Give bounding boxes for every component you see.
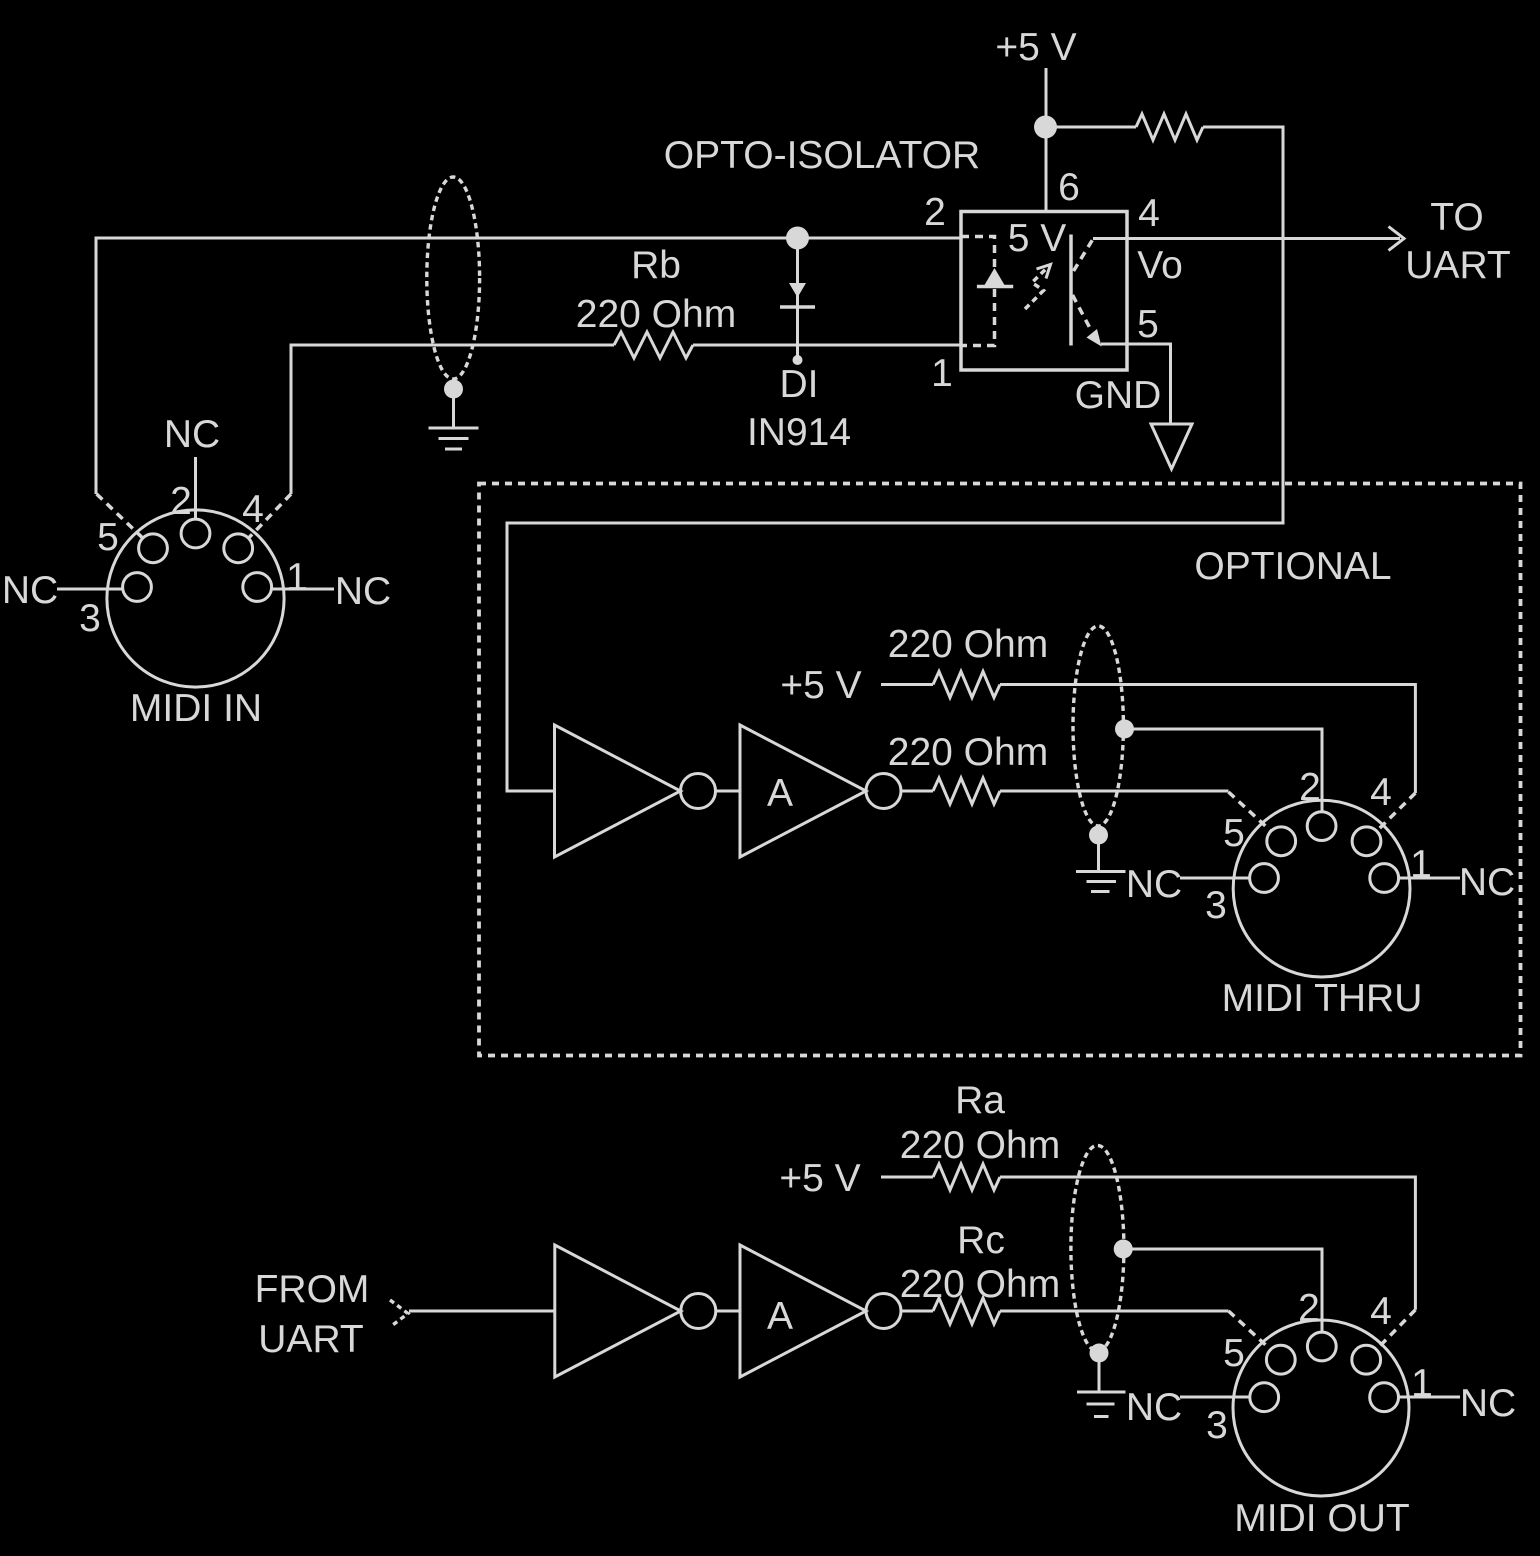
THRU pin 2	[1307, 812, 1336, 841]
svg-text:4: 4	[1370, 1290, 1392, 1333]
wire resistor to feedback line down into OPTIONAL box	[507, 127, 1283, 791]
svg-text:NC: NC	[164, 413, 220, 456]
THRU pin 5	[1267, 827, 1296, 856]
svg-text:TO: TO	[1430, 196, 1483, 239]
earth ground (shield)	[429, 428, 479, 449]
MIDI IN pin 4	[224, 534, 253, 563]
junction dot diode anode	[786, 227, 809, 250]
svg-text:UART: UART	[1405, 244, 1510, 287]
svg-text:DI: DI	[780, 363, 819, 406]
svg-text:Ra: Ra	[955, 1079, 1005, 1122]
OUT pin 1	[1370, 1383, 1399, 1412]
cable shield ellipse (THRU)	[1073, 626, 1123, 826]
dashed lead OUT pin 5	[1229, 1311, 1271, 1350]
inverter 1 triangle (OUT)	[555, 1245, 681, 1377]
opto internal: phototransistor base bar	[1069, 235, 1073, 346]
svg-text:MIDI THRU: MIDI THRU	[1222, 977, 1423, 1020]
opto internal: collector dashed	[1074, 239, 1094, 271]
ground arrow (open triangle)	[1151, 424, 1192, 469]
THRU pin 1	[1370, 864, 1399, 893]
opto internal: LED dashed loop top	[961, 237, 995, 269]
opto internal: LED dashed loop bottom	[961, 289, 995, 346]
wire bubble1 to inverter 2	[716, 790, 741, 793]
svg-text:NC: NC	[335, 570, 391, 613]
OUT pin 4	[1352, 1345, 1381, 1374]
inverter 2 triangle	[740, 725, 866, 857]
svg-text:A: A	[767, 1295, 793, 1338]
wire NC to pin 3	[57, 588, 123, 591]
wire Ra to pin 4 riser (OUT)	[1000, 1177, 1415, 1310]
svg-text:220 Ohm: 220 Ohm	[576, 293, 736, 336]
wire resistor to pin5 lead	[1000, 790, 1229, 793]
svg-text:220 Ohm: 220 Ohm	[900, 1263, 1060, 1306]
svg-text:220 Ohm: 220 Ohm	[900, 1124, 1060, 1167]
svg-text:1: 1	[1411, 1362, 1433, 1405]
svg-text:+5 V: +5 V	[995, 26, 1076, 69]
earth ground (OUT shield)	[1077, 1392, 1126, 1417]
dashed lead OUT pin 4	[1376, 1310, 1415, 1350]
wire Rc to pin5 lead	[1000, 1310, 1229, 1313]
dashed lead pin 4	[248, 494, 291, 538]
svg-text:4: 4	[1370, 771, 1392, 814]
dashed chevron (from uart)	[390, 1300, 408, 1327]
wire Rb to opto pin 1	[693, 344, 961, 347]
opto internal: light arrow dashed zigzag	[1025, 265, 1051, 310]
shield ground stem (OUT)	[1098, 1353, 1101, 1391]
svg-text:NC: NC	[1126, 863, 1182, 906]
svg-text:2: 2	[1298, 1287, 1320, 1330]
MIDI IN pin 2	[181, 519, 210, 548]
earth ground (THRU shield)	[1076, 872, 1126, 892]
resistor 220 Ohm (+5V, THRU)	[933, 672, 1000, 698]
wire NC to pin 2	[194, 457, 197, 519]
wire shield dot to pin 2 (OUT)	[1123, 1249, 1322, 1332]
wire node to pull-up resistor	[1046, 126, 1136, 129]
svg-text:1: 1	[931, 352, 953, 395]
opto internal: LED triangle	[985, 268, 1005, 285]
svg-text:A: A	[767, 772, 793, 815]
inverter 1 bubble	[681, 774, 716, 809]
opto-isolator U1 body	[961, 212, 1127, 371]
svg-text:+5 V: +5 V	[780, 664, 861, 707]
inverter 1 bubble (OUT)	[681, 1294, 716, 1329]
svg-text:1: 1	[286, 556, 308, 599]
svg-text:2: 2	[924, 191, 946, 234]
resistor Ra	[933, 1164, 1000, 1190]
resistor 220 Ohm (signal, THRU)	[933, 778, 1000, 804]
svg-text:NC: NC	[2, 569, 58, 612]
cable shield ellipse (MIDI IN)	[427, 177, 480, 379]
shield ground stem	[452, 389, 455, 428]
MIDI IN pin 3	[123, 573, 152, 602]
svg-text:NC: NC	[1126, 1386, 1182, 1429]
wire bottom net: MIDI IN pin4 riser to Rb	[291, 345, 614, 494]
svg-text:3: 3	[79, 597, 101, 640]
shield junction dot (ground, OUT)	[1090, 1344, 1109, 1363]
wire NC to OUT pin 3	[1180, 1396, 1250, 1399]
svg-text:5: 5	[97, 516, 119, 559]
THRU pin 3	[1250, 864, 1279, 893]
OPTIONAL dashed border	[479, 484, 1521, 1056]
resistor pull-up (unlabeled)	[1136, 114, 1203, 140]
svg-text:NC: NC	[1460, 1382, 1516, 1425]
wire pin 4 to UART	[1093, 237, 1400, 240]
pin 6 wire (+5V node to opto)	[1045, 127, 1048, 211]
inverter 2 triangle (OUT)	[740, 1245, 866, 1377]
svg-text:IN914: IN914	[747, 411, 851, 454]
MIDI IN pin 5	[139, 534, 168, 563]
resistor Rc	[933, 1298, 1000, 1324]
wire shield dot to pin 2	[1125, 729, 1323, 812]
inverter 1 triangle	[555, 725, 681, 857]
svg-text:Vo: Vo	[1137, 244, 1183, 287]
svg-text:3: 3	[1205, 884, 1227, 927]
diode DI (vertical, arrow down, cathode bar)	[780, 238, 815, 365]
svg-text:OPTO-ISOLATOR: OPTO-ISOLATOR	[664, 134, 980, 177]
svg-text:MIDI IN: MIDI IN	[130, 687, 262, 730]
svg-text:UART: UART	[258, 1318, 363, 1361]
junction dot +5V node	[1034, 116, 1057, 139]
svg-text:2: 2	[1299, 766, 1321, 809]
wire pin 1 to NC	[272, 588, 334, 591]
MIDI IN connector body	[107, 510, 284, 687]
opto internal: emitter arrowhead	[1087, 329, 1102, 347]
svg-text:MIDI OUT: MIDI OUT	[1234, 1497, 1409, 1540]
cable shield ellipse (OUT)	[1071, 1145, 1124, 1351]
svg-text:220 Ohm: 220 Ohm	[888, 731, 1048, 774]
wire +5V down to node	[1045, 68, 1048, 127]
svg-text:FROM: FROM	[255, 1268, 370, 1311]
wire +5V to resistor Ra	[881, 1176, 933, 1179]
OUT pin 5	[1266, 1345, 1295, 1374]
svg-text:4: 4	[1138, 192, 1160, 235]
wire +5V to resistor	[881, 683, 933, 686]
dashed lead THRU pin 4	[1376, 793, 1415, 831]
dashed lead THRU pin 5	[1229, 792, 1272, 831]
wire top net: MIDI IN pin5 riser to opto pin 2	[96, 238, 961, 494]
MIDI IN pin 1	[243, 573, 272, 602]
opto internal: emitter dashed	[1073, 295, 1093, 332]
shield junction dot (pin 2 net)	[1115, 720, 1134, 739]
opto internal: light arrowhead	[1037, 265, 1051, 279]
dashed lead pin 5	[97, 494, 143, 538]
svg-text:5: 5	[1137, 303, 1159, 346]
shield junction dot	[444, 380, 463, 399]
resistor Rb	[614, 332, 693, 358]
inverter 2 bubble	[866, 774, 901, 809]
arrowhead TO UART	[1389, 227, 1405, 251]
svg-text:Rc: Rc	[957, 1219, 1005, 1262]
svg-text:Rb: Rb	[631, 244, 681, 287]
svg-text:+5 V: +5 V	[779, 1157, 860, 1200]
svg-text:GND: GND	[1075, 374, 1162, 417]
shield junction dot (ground)	[1089, 826, 1108, 845]
wire resistor to pin 4 riser	[1000, 685, 1415, 794]
opto internal: LED cathode bar	[977, 285, 1013, 289]
OUT pin 2	[1307, 1332, 1336, 1361]
wire bubble2 to resistor	[901, 790, 933, 793]
wire THRU pin 1 to NC	[1399, 877, 1460, 880]
MIDI THRU connector body	[1233, 800, 1410, 977]
inverter 2 bubble (OUT)	[866, 1294, 901, 1329]
shield ground stem	[1097, 835, 1100, 871]
MIDI OUT connector body	[1233, 1320, 1409, 1496]
svg-text:6: 6	[1058, 166, 1080, 209]
OUT pin 3	[1250, 1383, 1279, 1412]
wire NC to THRU pin 3	[1180, 877, 1250, 880]
svg-text:220 Ohm: 220 Ohm	[888, 623, 1048, 666]
svg-text:5 V: 5 V	[1008, 217, 1067, 260]
svg-text:2: 2	[170, 480, 192, 523]
svg-text:5: 5	[1223, 1332, 1245, 1375]
wire bubble2 to resistor Rc	[901, 1310, 933, 1313]
svg-text:5: 5	[1223, 812, 1245, 855]
wire pin 5 to ground	[1101, 344, 1171, 423]
wire from uart to inverter 1	[409, 1310, 555, 1313]
wire OUT pin 1 to NC	[1399, 1396, 1461, 1399]
wire bubble1 to inverter 2 (OUT)	[716, 1310, 740, 1313]
svg-text:1: 1	[1410, 843, 1432, 886]
THRU pin 4	[1352, 827, 1381, 856]
svg-text:OPTIONAL: OPTIONAL	[1194, 545, 1391, 588]
svg-text:3: 3	[1206, 1404, 1228, 1447]
shield junction dot (pin 2 net, OUT)	[1114, 1240, 1133, 1259]
svg-text:NC: NC	[1459, 861, 1515, 904]
